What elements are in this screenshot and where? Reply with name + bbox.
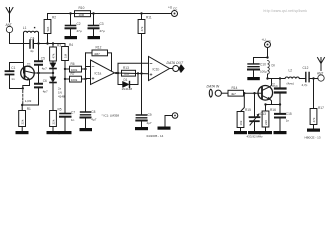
svg-text:R12: R12: [96, 46, 102, 50]
node between diodes (detector wire): [39, 72, 54, 74]
terminal DATA OUT: [167, 61, 184, 72]
diode D1: [50, 63, 56, 73]
capacitor C14 (feedback): [272, 79, 286, 105]
svg-text:R7: R7: [71, 72, 75, 76]
svg-text:IC1b: IC1b: [153, 68, 160, 72]
wire tank left vertical: [23, 33, 25, 63]
svg-text:22k: 22k: [21, 119, 25, 124]
svg-text:(4zw): (4zw): [287, 82, 294, 86]
node emitter / C1: [22, 87, 24, 89]
wire tank right vertical: [38, 33, 40, 44]
svg-text:5k6: 5k6: [46, 26, 50, 31]
arrow data in: [209, 89, 212, 97]
power rail +Ucc: [48, 13, 172, 15]
ground (terminal): [158, 127, 171, 130]
svg-text:1M: 1M: [64, 53, 68, 58]
svg-text:1n: 1n: [286, 119, 290, 123]
svg-text:220: 220: [264, 120, 268, 125]
svg-text:R4: R4: [69, 43, 73, 47]
inductor L1: [23, 26, 39, 33]
op-amp IC1b: [149, 57, 170, 81]
svg-text:C14: C14: [272, 84, 278, 88]
wire collector rail: [268, 78, 286, 80]
choke Dl1: [23, 91, 32, 106]
svg-text:R1: R1: [27, 107, 31, 111]
wire slicer top branch to IC1b inverting input: [118, 63, 149, 73]
svg-text:R15: R15: [245, 108, 251, 112]
ground (C7): [59, 131, 72, 134]
terminal +Ucc (receiver): [168, 6, 178, 17]
node R1 top: [21, 104, 23, 106]
svg-text:10R: 10R: [79, 13, 85, 17]
ground (C2): [65, 36, 78, 39]
resistor R5: [50, 108, 62, 132]
capacitor C15 (emitter bypass): [275, 105, 292, 132]
svg-text:4p7: 4p7: [43, 90, 48, 94]
svg-text:C13: C13: [260, 112, 266, 116]
node C3 / rail: [92, 12, 94, 14]
ground (R1): [16, 131, 29, 134]
ground (C3): [88, 36, 101, 39]
capacitor C2: [66, 14, 82, 37]
svg-text:Dł: Dł: [272, 64, 275, 68]
capacitor C1: [6, 63, 23, 89]
svg-text:R13: R13: [123, 66, 129, 70]
svg-text:C15: C15: [286, 112, 292, 116]
resistor R17: [310, 79, 324, 129]
trimmer capacitor C13: [250, 93, 267, 131]
svg-text:C8: C8: [91, 110, 95, 114]
node feedback/output: [115, 72, 117, 74]
node at C5 top: [37, 42, 39, 44]
capacitor C7: [60, 111, 75, 132]
resistor R13: [122, 66, 136, 76]
diode D3: [118, 73, 138, 91]
capacitor C6: [35, 73, 48, 105]
svg-text:R11: R11: [146, 16, 152, 20]
svg-text:C5: C5: [41, 56, 45, 60]
svg-text:Ł,R2: Ł,R2: [25, 99, 32, 103]
node base/trimmer: [253, 92, 255, 94]
resistor R7: [65, 72, 86, 82]
node collector/choke: [266, 77, 268, 79]
svg-text:CC: CC: [173, 7, 178, 11]
svg-text:C4: C4: [30, 36, 34, 40]
svg-text:100k: 100k: [71, 78, 78, 82]
inductor L2: [285, 69, 299, 86]
svg-text:4M7: 4M7: [94, 52, 100, 56]
wire node row y43: [39, 43, 66, 45]
svg-text:C1: C1: [11, 66, 15, 70]
transistor T1: [21, 44, 39, 89]
capacitor C12: [299, 66, 317, 87]
svg-text:4k7: 4k7: [231, 92, 236, 96]
svg-text:4µ7: 4µ7: [91, 118, 96, 122]
resistor R11: [138, 14, 152, 34]
svg-text:* IC1: LM358: * IC1: LM358: [102, 114, 120, 118]
svg-text:R6: R6: [71, 62, 75, 66]
resistor R4: [62, 43, 74, 61]
svg-text:47µ: 47µ: [100, 29, 105, 33]
svg-text:47µ: 47µ: [77, 29, 82, 33]
capacitor C5: [35, 44, 47, 74]
node base/R15: [243, 92, 245, 94]
ground (R15): [234, 131, 247, 134]
node R7 right: [84, 78, 86, 80]
node R6 left: [64, 68, 66, 70]
ground (C15): [274, 131, 287, 134]
svg-text:C7: C7: [71, 111, 75, 115]
svg-text:47k: 47k: [312, 117, 316, 122]
svg-text:T1: T1: [27, 63, 31, 67]
terminal DATA IN: [207, 85, 229, 97]
wire emitter bottom row: [22, 104, 38, 106]
ground (C8): [80, 128, 93, 131]
node supply: [266, 56, 268, 58]
svg-text:1N4148: 1N4148: [122, 87, 133, 91]
svg-text:L1: L1: [23, 26, 27, 30]
svg-text:4µ7: 4µ7: [147, 121, 152, 125]
svg-text:C3: C3: [100, 22, 104, 26]
node emitter/R16: [264, 103, 266, 105]
diode D2: [50, 73, 65, 111]
svg-text:C10: C10: [260, 63, 266, 67]
svg-text:L2: L2: [289, 69, 293, 73]
wire vref rail x85: [85, 53, 87, 112]
svg-text:R5: R5: [58, 108, 62, 112]
node at R2 bottom: [46, 42, 48, 44]
capacitor C4: [24, 36, 39, 53]
svg-text:4148: 4148: [58, 95, 65, 99]
resistor R12: [86, 46, 112, 74]
arrow data out: [179, 64, 185, 72]
node at R3 top: [52, 42, 54, 44]
node emitter/C14: [279, 103, 281, 105]
wire base to C1: [10, 62, 24, 64]
node slicer right: [137, 72, 139, 74]
ground (R16): [259, 131, 272, 134]
svg-text:http://www.qsl.net/sp5smk: http://www.qsl.net/sp5smk: [264, 9, 308, 13]
antenna ANT (receiver): [6, 8, 14, 33]
svg-text:R14: R14: [232, 86, 238, 90]
svg-text:04/2005 - 14: 04/2005 - 14: [147, 134, 164, 138]
wire R4 down rail: [64, 61, 66, 113]
resistor R3: [50, 44, 62, 63]
terminal GND: [165, 113, 178, 127]
terminal +Ucc (transmitter): [262, 38, 272, 58]
svg-text:22k: 22k: [52, 119, 56, 124]
resistor R15: [237, 93, 251, 131]
resistor R1: [19, 105, 31, 131]
svg-text:1n: 1n: [11, 77, 15, 81]
wire antenna to tank: [10, 33, 24, 44]
svg-text:4,7p: 4,7p: [302, 83, 308, 87]
svg-text:4p: 4p: [30, 49, 34, 53]
svg-text:1n: 1n: [71, 118, 75, 122]
svg-text:IC1a: IC1a: [95, 72, 102, 76]
svg-text:R2: R2: [52, 16, 56, 20]
wire op-amp input leads: [86, 67, 91, 79]
ground (R5): [47, 131, 60, 134]
svg-text:CC: CC: [267, 39, 272, 43]
resistor R16: [262, 105, 276, 132]
svg-text:R3: R3: [57, 44, 61, 48]
node R11 / rail: [140, 12, 142, 14]
node C2 / rail: [69, 12, 71, 14]
ground (C13): [248, 131, 261, 134]
node collector/C14: [279, 77, 281, 79]
node R11/C9 on slicer wire: [140, 72, 142, 74]
ground (C9): [135, 127, 148, 130]
transistor T2: [258, 79, 275, 105]
svg-text:DATA IN: DATA IN: [207, 85, 220, 89]
resistor R6: [65, 62, 86, 72]
svg-text:47k: 47k: [124, 72, 129, 76]
resistor R14: [228, 86, 262, 96]
node R6 right: [84, 68, 86, 70]
wire IC1a output: [115, 72, 149, 75]
resistor R2: [44, 14, 56, 44]
svg-text:R16: R16: [270, 108, 276, 112]
node antenna/R17: [312, 77, 314, 79]
svg-text:HB0CE - 13: HB0CE - 13: [305, 135, 321, 139]
wire R11 node down to C9: [141, 74, 143, 115]
svg-text:R10: R10: [79, 6, 85, 10]
capacitor C8: [81, 110, 97, 128]
svg-text:10k: 10k: [239, 120, 243, 125]
svg-text:C9: C9: [148, 113, 152, 117]
svg-text:100µ: 100µ: [260, 70, 267, 74]
wire emitter row: [266, 104, 281, 106]
capacitor C9: [136, 113, 152, 127]
choke Dl2: [268, 61, 275, 79]
op-amp IC1a: [91, 60, 115, 85]
svg-text:47k: 47k: [140, 26, 144, 31]
antenna ANT (transmitter): [317, 58, 325, 82]
wire R11 down to slicer node: [141, 34, 143, 74]
node R7 left: [64, 78, 66, 80]
svg-text:4p7: 4p7: [42, 67, 47, 71]
svg-text:433,92 MHz: 433,92 MHz: [247, 135, 264, 139]
svg-text:R17: R17: [318, 106, 324, 110]
capacitor C10: [248, 58, 268, 78]
node emitter/collector coupling: [37, 72, 39, 74]
resistor R10: [71, 6, 94, 17]
ground (C10): [247, 77, 259, 80]
svg-text:D1: D1: [124, 78, 128, 82]
ground (R17): [307, 129, 320, 132]
svg-text:C6: C6: [43, 79, 47, 83]
svg-text:C12: C12: [303, 66, 309, 70]
node slicer left: [117, 72, 119, 74]
svg-text:C2: C2: [77, 22, 81, 26]
capacitor C3: [89, 14, 105, 37]
svg-text:47k: 47k: [52, 53, 56, 58]
